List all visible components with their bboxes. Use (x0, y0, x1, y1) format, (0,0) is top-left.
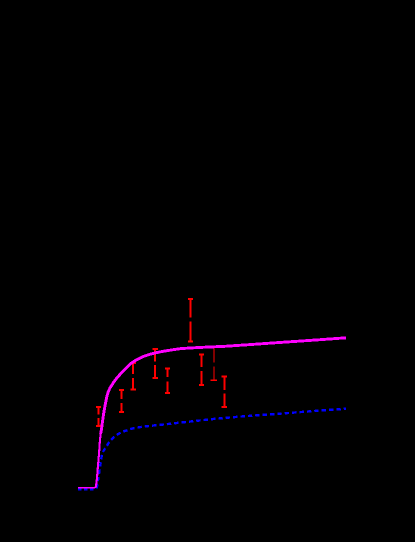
curve: magenta solid model (steep rise) (95, 434, 100, 488)
error bar I (222, 376, 227, 407)
error bar B (119, 390, 124, 412)
error bar H (thin, top hidden under curve) (211, 346, 218, 381)
error bar C (131, 363, 136, 390)
curve: blue dashed model (rise and tail) (97, 409, 346, 489)
error bar A (96, 407, 101, 426)
curve: magenta solid model (knee and tail) (101, 338, 346, 434)
error bar G (199, 355, 204, 385)
error bar F (188, 299, 193, 342)
error bar D (153, 349, 158, 378)
error bar E (165, 368, 170, 393)
curve: magenta solid model (flat start) (78, 487, 95, 489)
curve: blue dashed model (flat start) (78, 489, 94, 491)
